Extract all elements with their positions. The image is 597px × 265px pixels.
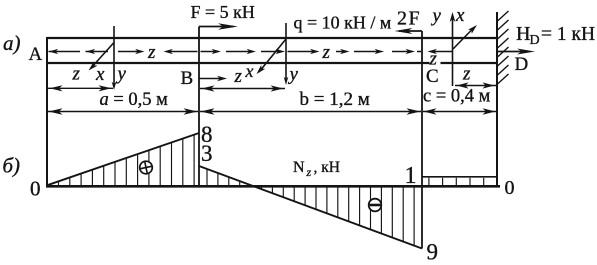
svg-text:0: 0 bbox=[505, 177, 515, 199]
minus sign in circle bbox=[369, 199, 382, 212]
svg-text:а): а) bbox=[3, 31, 21, 55]
N_z triangle hypotenuse A-B bbox=[47, 133, 199, 185]
dimension line a bbox=[48, 111, 198, 113]
z measure arrow B-section2 bbox=[200, 88, 285, 90]
wall hatch 2 bbox=[498, 20, 509, 30]
wall hatch 4 bbox=[498, 38, 509, 48]
svg-text:, кН: , кН bbox=[314, 159, 340, 176]
bar outline top edge bbox=[47, 37, 497, 39]
N_z negative triangle hatching B-C bbox=[206, 169, 208, 185]
svg-text:0: 0 bbox=[30, 177, 41, 201]
svg-text:z: z bbox=[306, 165, 312, 179]
svg-text:D: D bbox=[515, 54, 529, 75]
wall hatch 6 bbox=[498, 56, 509, 66]
diagram zero baseline bbox=[46, 185, 500, 188]
svg-text:x: x bbox=[95, 64, 105, 85]
node A extension line (left edge, down to diagram) bbox=[46, 37, 48, 187]
svg-text:a = 0,5 м: a = 0,5 м bbox=[100, 90, 169, 110]
svg-text:x: x bbox=[455, 5, 465, 26]
svg-text:z: z bbox=[234, 66, 243, 87]
bar axis arrow segment C-D bbox=[431, 51, 453, 53]
svg-text:z: z bbox=[147, 42, 156, 63]
svg-text:N: N bbox=[293, 159, 305, 176]
svg-text:A: A bbox=[29, 44, 43, 65]
section 1 axis z (diagonal arrow) bbox=[91, 43, 114, 69]
force F arrow bbox=[199, 26, 233, 28]
svg-text:B: B bbox=[181, 68, 194, 89]
bar outline bottom edge (gap at z label near C) bbox=[47, 62, 430, 64]
svg-text:H: H bbox=[516, 23, 530, 45]
section 2 axis x (diagonal arrow) bbox=[259, 39, 286, 72]
svg-text:z: z bbox=[72, 64, 81, 85]
wall hatch 8 bbox=[498, 74, 509, 84]
section line 3 / axis y up bbox=[452, 16, 454, 86]
bar axis arrows segment B-C bbox=[201, 51, 218, 53]
svg-text:x: x bbox=[245, 61, 254, 81]
svg-text:2F: 2F bbox=[397, 8, 421, 30]
N_z strip top line C-D (value 1) bbox=[422, 176, 497, 178]
reaction H_D arrow bbox=[498, 51, 529, 53]
dimension line c bbox=[423, 111, 496, 113]
wall hatch 5 bbox=[498, 47, 509, 57]
svg-text:y: y bbox=[116, 64, 127, 85]
N_z strip hatching C-D bbox=[428, 178, 430, 186]
svg-text:z: z bbox=[462, 64, 471, 85]
svg-text:y: y bbox=[431, 6, 442, 27]
svg-text:q = 10 кН / м: q = 10 кН / м bbox=[294, 13, 392, 33]
node B section line (down into diagram) bbox=[198, 27, 200, 188]
svg-text:c = 0,4 м: c = 0,4 м bbox=[423, 86, 491, 106]
section 3 axis x (diagonal arrow NE) bbox=[453, 28, 474, 50]
svg-text:D: D bbox=[530, 33, 540, 48]
section line 1 bbox=[113, 26, 115, 86]
N_z sloping line B-C bbox=[199, 166, 422, 249]
wall hatch 1 bbox=[498, 11, 509, 21]
svg-text:9: 9 bbox=[427, 240, 439, 265]
force 2F arrow bbox=[399, 30, 422, 32]
svg-text:z: z bbox=[322, 42, 331, 63]
svg-text:y: y bbox=[288, 64, 299, 85]
wall hatch 7 bbox=[498, 65, 509, 75]
svg-text:b = 1,2 м: b = 1,2 м bbox=[300, 89, 370, 110]
bar axis arrows segment A-B bbox=[49, 51, 81, 53]
section line 2 bbox=[285, 23, 287, 81]
wall hatch 3 bbox=[498, 29, 509, 39]
svg-text:1: 1 bbox=[405, 163, 417, 189]
svg-text:= 1 кН: = 1 кН bbox=[541, 24, 595, 45]
svg-text:б): б) bbox=[3, 154, 21, 178]
node C section line bbox=[421, 31, 423, 249]
svg-text:3: 3 bbox=[201, 141, 213, 166]
svg-text:F = 5 кН: F = 5 кН bbox=[191, 2, 255, 22]
section 2 local z arrow from B bbox=[199, 78, 222, 80]
z measure arrow A-section1 bbox=[48, 87, 113, 89]
dimension line b bbox=[200, 111, 421, 113]
N_z positive triangle hatching A-B bbox=[58, 182, 60, 185]
plus sign in circle bbox=[139, 160, 154, 175]
wall (fixed support) at D bbox=[496, 12, 498, 187]
